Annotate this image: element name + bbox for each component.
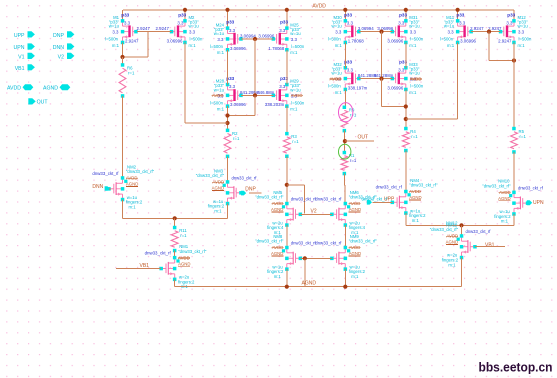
svg-text:3.3: 3.3	[347, 20, 354, 25]
svg-text:w=1u: w=1u	[444, 24, 455, 29]
svg-text:m:1: m:1	[217, 107, 225, 112]
wire M28 drain to R2	[227, 106, 229, 130]
pin UPN	[28, 43, 35, 49]
svg-text:m:1: m:1	[335, 90, 343, 95]
wire NM8-NM9 gates	[300, 257, 332, 259]
svg-text:dnw33_ckt_rf: dnw33_ckt_rf	[145, 251, 172, 256]
svg-text:AGND: AGND	[126, 182, 138, 187]
svg-text:3.3: 3.3	[217, 37, 224, 42]
wire M32-M33 gates	[359, 78, 393, 80]
svg-text:p33: p33	[456, 12, 464, 17]
svg-text:w=1u: w=1u	[290, 87, 301, 92]
svg-text:l=500n: l=500n	[190, 37, 204, 42]
wire M12 drain to R5	[513, 42, 515, 128]
svg-text:3.3: 3.3	[506, 20, 513, 25]
pin VB1	[28, 64, 35, 70]
svg-text:3.06994: 3.06994	[358, 26, 374, 31]
svg-text:dnw33_ckt_rf: dnw33_ckt_rf	[315, 241, 342, 246]
svg-text:OUT: OUT	[37, 100, 49, 106]
svg-text:dnw33_ckt_rf: dnw33_ckt_rf	[232, 175, 258, 180]
svg-text:w=1u: w=1u	[332, 71, 343, 76]
wire M31 to M33	[405, 42, 407, 67]
wire M1 diode horiz	[123, 56, 149, 58]
svg-text:l=500n: l=500n	[440, 37, 454, 42]
wire M1 diode drop	[147, 32, 149, 57]
svg-text:3.3: 3.3	[291, 37, 298, 42]
svg-text:m:1: m:1	[112, 43, 120, 48]
wire M29 drain to R3	[286, 106, 288, 134]
wire M28 diode horiz	[228, 115, 256, 117]
wire M1 node to R6	[122, 57, 124, 65]
wire NM1 src down	[174, 279, 176, 286]
junction	[404, 8, 408, 12]
svg-text:2.9247: 2.9247	[125, 38, 139, 43]
pmos M1	[123, 21, 137, 43]
svg-text:DNP: DNP	[245, 187, 256, 193]
nmos NM4	[392, 192, 406, 214]
svg-text:V1: V1	[18, 55, 24, 61]
svg-text:3.3: 3.3	[279, 28, 286, 33]
svg-text:3.3: 3.3	[459, 20, 466, 25]
svg-text:m:1: m:1	[290, 107, 298, 112]
svg-text:2.9247: 2.9247	[137, 26, 151, 31]
svg-text:841.288m: 841.288m	[374, 73, 394, 78]
resistor R9	[341, 110, 348, 127]
svg-text:p33: p33	[344, 12, 352, 17]
wire R5 to NM10	[513, 152, 515, 192]
wire NM9 src down	[344, 269, 346, 287]
svg-text:bbs.eetop.cn: bbs.eetop.cn	[479, 359, 553, 374]
svg-text:l=500n: l=500n	[210, 100, 224, 105]
svg-text:3.3: 3.3	[229, 84, 236, 89]
wire R11 to NM1	[174, 251, 176, 258]
svg-text:m:1: m:1	[217, 50, 225, 55]
wire NM6 src down	[344, 225, 346, 247]
svg-text:m:1: m:1	[129, 204, 137, 209]
svg-text:r=1: r=1	[350, 113, 357, 118]
bulk net stub lines	[446, 235, 458, 237]
wire M2 drain across	[185, 122, 228, 124]
svg-text:VB1: VB1	[140, 263, 150, 269]
wire OUT	[345, 140, 374, 142]
svg-text:m:1: m:1	[448, 262, 456, 267]
wire DNN to gate	[109, 188, 111, 190]
svg-text:3.3: 3.3	[518, 30, 525, 35]
svg-text:"dnw33_ckt_rf": "dnw33_ckt_rf"	[482, 184, 511, 189]
svg-text:DNP: DNP	[53, 33, 64, 39]
nmos NM6	[332, 204, 346, 226]
wire M11-M12 gates	[471, 31, 500, 33]
svg-text:AGND: AGND	[271, 251, 283, 256]
svg-text:w=1u: w=1u	[409, 71, 420, 76]
pin V2	[67, 53, 74, 59]
junction gate node	[379, 77, 383, 81]
wire V2 tap across	[287, 184, 305, 186]
wire gate node drop	[254, 39, 256, 95]
pin DNP	[241, 191, 246, 196]
wire M33 drain to R4	[405, 89, 407, 128]
wire gate drop to AGND	[304, 258, 306, 286]
svg-text:dnw33_ckt_rf: dnw33_ckt_rf	[92, 171, 119, 176]
pin V1	[28, 53, 35, 59]
wire UPP to gate	[373, 201, 393, 203]
wire NM11 src down	[461, 258, 463, 287]
svg-text:l=500n: l=500n	[105, 37, 119, 42]
junction diode	[404, 104, 408, 108]
svg-text:V2: V2	[58, 55, 64, 61]
wire DNP stub	[249, 192, 262, 194]
wire rail drop	[184, 10, 186, 21]
pin OUT	[28, 98, 35, 104]
wire M1 drain stub	[122, 42, 124, 57]
svg-text:"dnw33_ckt_rf": "dnw33_ckt_rf"	[255, 239, 284, 244]
wire M24 to M28	[227, 50, 229, 85]
nmos NM1	[161, 258, 175, 280]
svg-text:w=1u: w=1u	[214, 87, 225, 92]
wire M11 diode horiz	[489, 60, 514, 62]
bulk net stub lines	[349, 203, 361, 205]
svg-text:m:1: m:1	[409, 90, 417, 95]
junction	[456, 8, 460, 12]
svg-text:3.06996: 3.06996	[258, 34, 274, 39]
wire NM4 src down	[405, 213, 407, 225]
svg-text:p33: p33	[178, 12, 186, 17]
junction M11 tie	[404, 117, 408, 121]
svg-text:846.88m: 846.88m	[257, 90, 274, 95]
wire NM10 src down	[513, 214, 515, 225]
svg-text:2.9247: 2.9247	[156, 26, 170, 31]
nmos NM2	[109, 178, 123, 200]
svg-text:w=1u: w=1u	[332, 24, 343, 29]
junction gate node	[253, 37, 257, 41]
junction	[459, 223, 463, 227]
svg-text:UPP: UPP	[384, 197, 395, 203]
junction gate node	[379, 30, 383, 34]
svg-text:3.3: 3.3	[347, 67, 354, 72]
wire R2 to NM3	[227, 156, 229, 182]
svg-text:3.06996: 3.06996	[387, 85, 403, 90]
svg-text:AGND: AGND	[43, 86, 58, 92]
bulk net stub lines	[271, 203, 283, 205]
svg-text:w=1u: w=1u	[409, 24, 420, 29]
wire R6 to NM2	[122, 96, 124, 178]
nmos NM8	[287, 248, 301, 270]
svg-text:3.3: 3.3	[124, 20, 131, 25]
svg-text:l=500n: l=500n	[328, 37, 342, 42]
svg-text:p33: p33	[507, 12, 515, 17]
svg-text:AGND: AGND	[498, 196, 510, 201]
resistor R1	[341, 156, 348, 171]
svg-text:"dnw33_ckt_rf": "dnw33_ckt_rf"	[409, 183, 438, 188]
svg-text:dnw33_ckt_rf: dnw33_ckt_rf	[376, 185, 403, 190]
junction	[225, 8, 229, 12]
wire R3 to NM5	[286, 156, 288, 203]
pmos M25	[273, 28, 287, 50]
svg-text:m:1: m:1	[214, 208, 222, 213]
pmos M33	[392, 68, 406, 90]
junction M1 drain	[120, 55, 124, 59]
junction gate node	[487, 30, 491, 34]
svg-text:l=500n: l=500n	[328, 84, 342, 89]
svg-text:UPP: UPP	[14, 33, 25, 39]
junction OUT	[343, 139, 347, 143]
svg-text:m:1: m:1	[518, 43, 526, 48]
svg-text:m:1: m:1	[335, 43, 343, 48]
pmos M29	[273, 85, 287, 107]
nmos NM5	[287, 204, 301, 226]
wire rail drop	[122, 10, 124, 21]
wire M24-M25 gates	[241, 38, 273, 40]
svg-text:3.3: 3.3	[335, 30, 342, 35]
wire tail to R11	[174, 218, 176, 227]
wire NM5 src down	[286, 225, 288, 247]
svg-text:3.3: 3.3	[398, 20, 405, 25]
junction gate node	[303, 256, 307, 260]
wire rail right corner	[513, 10, 515, 21]
svg-text:338.202m: 338.202m	[265, 102, 285, 107]
svg-text:DNN: DNN	[53, 45, 64, 51]
svg-text:3.06996: 3.06996	[460, 38, 476, 43]
svg-text:"dnw33_ckt_rf": "dnw33_ckt_rf"	[255, 195, 284, 200]
nmos NM9	[332, 248, 346, 270]
wire dot to NM11	[461, 225, 463, 236]
pin UPP	[28, 31, 35, 37]
wire rail drop	[286, 10, 288, 28]
wire M11 diode drop	[488, 32, 490, 61]
junction diode tap	[225, 113, 229, 117]
svg-text:3.06996: 3.06996	[387, 38, 403, 43]
svg-text:m:1: m:1	[501, 219, 509, 224]
svg-text:AGND: AGND	[349, 207, 361, 212]
svg-text:m:1: m:1	[351, 274, 359, 279]
junction M2 drain tie	[225, 121, 229, 125]
svg-text:r=1: r=1	[128, 71, 135, 76]
svg-text:3.3: 3.3	[229, 28, 236, 33]
svg-text:AGND: AGND	[409, 195, 421, 200]
svg-text:1.78068: 1.78068	[268, 46, 284, 51]
bulk net stub lines	[409, 191, 421, 193]
svg-text:r=1: r=1	[180, 233, 187, 238]
svg-text:w=1u: w=1u	[189, 24, 200, 29]
junction	[285, 285, 289, 289]
svg-text:dnw33_ckt_rf: dnw33_ckt_rf	[291, 197, 317, 202]
resistor R5	[511, 132, 518, 149]
wire rail drop	[344, 10, 346, 21]
highlight ellipse magenta	[339, 103, 353, 122]
resistor R2	[224, 134, 231, 154]
wire M33 diode horiz	[382, 106, 406, 108]
wire M28 diode drop	[254, 95, 256, 115]
svg-text:UPN: UPN	[14, 45, 25, 51]
svg-text:l=500n: l=500n	[210, 44, 224, 49]
pin DNN	[67, 43, 74, 49]
pmos M12	[501, 21, 515, 43]
svg-text:OUT: OUT	[358, 135, 369, 141]
wire M11 drain across	[406, 118, 458, 120]
wire M28-M29 gates	[241, 94, 273, 96]
svg-text:m:1: m:1	[447, 43, 455, 48]
wire R4 to NM4	[405, 151, 407, 192]
svg-text:VB1: VB1	[485, 242, 495, 248]
svg-text:w=1u: w=1u	[518, 24, 529, 29]
svg-text:m:1: m:1	[290, 50, 298, 55]
bulk net stub lines	[126, 177, 138, 179]
svg-text:dnw33_ckt_rf: dnw33_ckt_rf	[518, 185, 544, 190]
junction	[343, 285, 347, 289]
wire tail bus right	[406, 224, 514, 226]
wire V2 gates	[300, 213, 332, 215]
svg-text:3.3: 3.3	[189, 30, 196, 35]
bulk net stub lines	[499, 192, 511, 194]
nmos NM10	[514, 192, 528, 214]
wire M30 to M32	[344, 42, 346, 67]
junction tail node	[173, 216, 177, 220]
pin DNP	[67, 31, 74, 37]
svg-text:p33: p33	[226, 20, 234, 25]
svg-text:3.3: 3.3	[447, 30, 454, 35]
pmos M31	[392, 21, 406, 43]
wire AGND bus	[175, 286, 462, 288]
svg-text:m:1: m:1	[274, 274, 282, 279]
svg-text:AGND: AGND	[271, 207, 283, 212]
pin AGND	[60, 84, 71, 90]
svg-text:"dnw33_ckt_rf": "dnw33_ckt_rf"	[349, 239, 378, 244]
svg-text:m:1: m:1	[409, 43, 417, 48]
highlight ellipse green	[339, 144, 351, 159]
svg-text:p33: p33	[121, 12, 129, 17]
pmos M30	[345, 21, 359, 43]
svg-text:l=500n: l=500n	[291, 44, 305, 49]
wire M11 drain down	[457, 42, 459, 119]
svg-text:3.3: 3.3	[177, 20, 184, 25]
resistor R3	[283, 137, 290, 153]
pmos M11	[458, 21, 472, 43]
wire VB1 stub right	[475, 246, 505, 248]
svg-text:3.3: 3.3	[398, 67, 405, 72]
wire rail drop	[227, 10, 229, 28]
junction M12 drain	[512, 58, 516, 62]
svg-text:w=1u: w=1u	[109, 24, 120, 29]
svg-text:dnw33_ckt_rf: dnw33_ckt_rf	[315, 197, 342, 202]
junction	[183, 8, 187, 12]
svg-text:AGND: AGND	[446, 240, 458, 245]
svg-text:1.78068: 1.78068	[348, 38, 364, 43]
pin AVDD	[23, 84, 34, 90]
svg-text:r=1: r=1	[233, 136, 240, 141]
svg-text:"dnw33_ckt_rf": "dnw33_ckt_rf"	[126, 169, 155, 174]
svg-text:w=1u: w=1u	[290, 31, 301, 36]
wire rail drop	[405, 10, 407, 21]
wire M33 diode drop	[381, 79, 383, 107]
bulk net stub lines	[178, 257, 190, 259]
svg-text:3.06996: 3.06996	[230, 46, 246, 51]
svg-text:dnw33_ckt_rf: dnw33_ckt_rf	[291, 241, 317, 246]
svg-text:3.06996: 3.06996	[230, 102, 246, 107]
svg-text:AVDD: AVDD	[312, 3, 326, 9]
resistor R4	[402, 132, 409, 148]
wire NM8 src down	[286, 269, 288, 287]
svg-text:l=500n: l=500n	[291, 100, 305, 105]
wire rail drop	[457, 10, 459, 21]
pin UPN	[527, 200, 532, 205]
svg-text:"dnw33_ckt_rf": "dnw33_ckt_rf"	[430, 227, 459, 232]
junction	[343, 8, 347, 12]
svg-text:3.3: 3.3	[112, 30, 119, 35]
wire R1 to NM6	[343, 174, 346, 204]
svg-text:V2: V2	[311, 208, 317, 214]
svg-text:AVDD: AVDD	[7, 86, 21, 92]
wire V2 tap down	[304, 185, 306, 214]
svg-text:r=1: r=1	[350, 158, 357, 163]
svg-text:"dnw33_ckt_rf": "dnw33_ckt_rf"	[178, 249, 207, 254]
svg-text:p33: p33	[280, 20, 288, 25]
wire M32 drain to R9	[344, 89, 346, 107]
nmos NM3	[228, 182, 242, 204]
svg-text:2.9247: 2.9247	[470, 26, 484, 31]
wire M1-M2 gate	[137, 31, 172, 33]
pmos M32	[345, 68, 359, 90]
junction	[285, 8, 289, 12]
svg-text:w=1u: w=1u	[214, 31, 225, 36]
wire NM2-NM3 source bus	[123, 217, 228, 219]
svg-text:UPN: UPN	[533, 200, 544, 206]
bulk net stub lines	[271, 247, 283, 249]
pmos M2	[172, 21, 186, 43]
svg-text:"dnw33_ckt_rf": "dnw33_ckt_rf"	[196, 173, 225, 178]
pmos M28	[228, 85, 242, 107]
resistor R6	[119, 68, 126, 93]
pin DNN	[105, 186, 110, 191]
svg-text:l=500n: l=500n	[410, 37, 424, 42]
wire VB1 stub	[116, 268, 161, 270]
bulk net stub lines	[349, 247, 361, 249]
svg-text:3.3: 3.3	[279, 84, 286, 89]
wire R9 to OUT node	[343, 131, 345, 153]
svg-text:r=1: r=1	[292, 139, 299, 144]
junction gate node	[253, 93, 257, 97]
svg-text:2.9247: 2.9247	[498, 38, 512, 43]
resistor R11	[171, 231, 178, 248]
wire NM2 src down	[122, 200, 124, 219]
wire AVDD rail	[123, 9, 514, 11]
wire M25 to M29	[286, 50, 288, 85]
bulk net stub lines	[212, 181, 224, 183]
svg-text:3.06996: 3.06996	[167, 38, 183, 43]
wire gate node drop	[381, 32, 383, 79]
svg-text:l=500n: l=500n	[519, 37, 533, 42]
svg-text:p33: p33	[399, 12, 407, 17]
wire NM3 src down	[227, 204, 229, 219]
wire M30-M31 gates	[359, 31, 393, 33]
svg-text:AGND: AGND	[302, 281, 317, 287]
svg-text:AGND: AGND	[178, 261, 190, 266]
wire M2 drain down	[184, 42, 186, 123]
pin UPP	[367, 200, 372, 205]
svg-text:338.197m: 338.197m	[348, 85, 368, 90]
svg-text:m:1: m:1	[412, 218, 420, 223]
svg-text:DNN: DNN	[92, 184, 103, 190]
junction V2 tap	[285, 183, 289, 187]
svg-text:AGND: AGND	[212, 186, 224, 191]
svg-text:r=1: r=1	[520, 134, 527, 139]
nmos NM11	[462, 236, 476, 258]
svg-text:l=500n: l=500n	[410, 84, 424, 89]
svg-text:VB1: VB1	[15, 66, 25, 72]
svg-text:dnw33_ckt_rf: dnw33_ckt_rf	[466, 229, 492, 234]
svg-text:AGND: AGND	[349, 251, 361, 256]
pmos M24	[228, 28, 242, 50]
svg-text:m:1: m:1	[189, 43, 197, 48]
